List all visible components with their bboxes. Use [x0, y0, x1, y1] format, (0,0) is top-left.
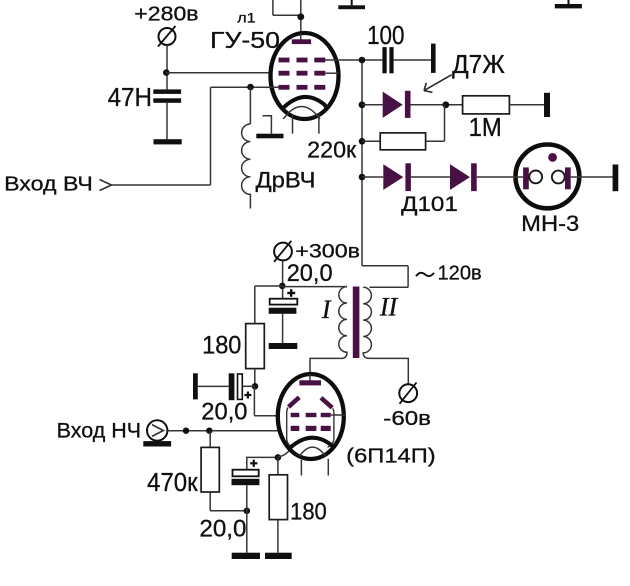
terminal +280в [158, 26, 176, 47]
node НЧ b [206, 428, 212, 434]
svg-text:Вход ВЧ: Вход ВЧ [4, 172, 93, 195]
terminal bar (after 100) [431, 44, 436, 73]
svg-text:(6П14П): (6П14П) [346, 446, 436, 468]
wire node to 470к [209, 431, 211, 448]
label I [321, 295, 332, 324]
label -60в [383, 408, 431, 430]
label 220к [307, 137, 357, 163]
ground (НЧ connector) [143, 441, 171, 446]
label Вход ВЧ [4, 172, 93, 195]
tube U1 ГУ-50 envelope [271, 33, 339, 119]
heater dome of U2 [299, 447, 325, 456]
label л1 [237, 11, 256, 26]
heater dome of U1 [283, 106, 320, 118]
diode Д7Ж [383, 91, 411, 118]
label 1М [469, 114, 502, 142]
label Д7Ж [452, 51, 505, 79]
beam plates of U2 [289, 397, 333, 407]
svg-text:II: II [379, 293, 399, 322]
svg-text:20,0: 20,0 [201, 398, 247, 425]
wire terminal to coupling cap [198, 385, 229, 387]
ground (cathode 180) [265, 553, 292, 559]
svg-text:л1: л1 [237, 11, 256, 26]
node +280в / screen-grid junction [163, 69, 170, 76]
wire cap to ground [166, 103, 168, 139]
terminal bar (after МН-3) [613, 165, 619, 192]
wire screen cap to node [242, 385, 255, 387]
cathode of U2 [291, 438, 333, 448]
grid row 2 of U1 [279, 71, 326, 76]
wire node to primary I [282, 286, 347, 288]
svg-text:470к: 470к [147, 469, 198, 497]
ground (under 47Н) [154, 139, 182, 144]
tube U2 6П14П envelope [278, 374, 344, 459]
svg-text:20,0: 20,0 [287, 260, 333, 287]
resistor 180 (cathode) [269, 475, 287, 520]
node bus/Д101 [359, 174, 366, 181]
svg-text:47Н: 47Н [108, 84, 152, 112]
plus sign (screen cap) [244, 392, 251, 399]
label +280в [134, 3, 198, 25]
wire cathode to ground [263, 116, 272, 134]
ground (filter cap) [269, 343, 298, 349]
wire 470к to cap line [210, 492, 247, 511]
svg-text:1М: 1М [469, 114, 502, 142]
heater pins of U1 [293, 115, 319, 134]
capacitor 20,0 electrolytic (cathode) [232, 470, 260, 485]
wire 220к up to node [426, 105, 445, 142]
ground (top middle) [338, 0, 365, 9]
wire bus to secondary top [362, 266, 408, 288]
resistor 180 (screen) [246, 324, 265, 369]
capacitor 20,0 electrolytic (screen) [229, 373, 243, 400]
wire screen node to tube [254, 386, 280, 415]
node Д7Ж/220к/1М [442, 101, 449, 108]
transformer primary I [310, 287, 347, 381]
lamp left electrode [523, 167, 542, 189]
wire bus to Д101 [362, 176, 383, 178]
grid row 1 of U1 [279, 58, 326, 63]
terminal bar (after 1М) [544, 93, 550, 117]
cathode of U1 [284, 97, 327, 109]
label 20,0 (cathode cap) [199, 516, 246, 543]
wire bus to Д7Ж [362, 104, 383, 106]
wire node to 180 resistor [255, 286, 282, 324]
node bus/grid1 [359, 57, 366, 64]
svg-text:ДрВЧ: ДрВЧ [256, 168, 316, 193]
transformer core [353, 287, 360, 359]
anode plate of U1 [292, 33, 311, 44]
capacitor 20,0 electrolytic (filter) [269, 299, 298, 314]
terminal bar (coupling cap) [193, 373, 198, 399]
wire bus to 220к [362, 140, 380, 142]
grid row 3 of U1 [279, 85, 326, 90]
svg-text:I: I [321, 295, 332, 324]
node 470к/20,0 [244, 508, 251, 515]
terminal -60в [399, 383, 417, 404]
grid row 2 of U2 [291, 426, 331, 431]
label 20,0 (anode filter cap) [287, 260, 333, 287]
label Вход НЧ [57, 419, 141, 442]
wire lamp to terminal [571, 176, 613, 178]
label 47Н [108, 84, 152, 112]
node НЧ a [183, 428, 189, 434]
diode Д101 b [450, 163, 477, 191]
grid row 1 of U2 [291, 413, 331, 417]
label ДрВЧ [256, 168, 316, 193]
heater pins of U2 [301, 459, 328, 476]
diode Д101 a [383, 163, 411, 191]
ground (cathode U1) [256, 134, 283, 139]
wire 180 to ground [277, 520, 279, 553]
svg-text:Д7Ж: Д7Ж [452, 51, 505, 79]
wire grid1 right stub of U2 [331, 414, 346, 416]
wire 180 to screen node [254, 369, 256, 387]
anode plate of U2 [299, 374, 321, 385]
label +300в [295, 242, 360, 263]
svg-text:100: 100 [367, 22, 404, 50]
label 20,0 (screen cap) [201, 398, 247, 425]
label (6П14П) [346, 446, 436, 468]
wire 1М to terminal [509, 104, 544, 106]
input chevron ВЧ [100, 180, 112, 191]
node +300в [279, 283, 286, 290]
transformer secondary II [363, 287, 408, 384]
node anode junction [297, 13, 304, 20]
ground (top right) [555, 0, 582, 8]
wire node to screen grid of U1 [166, 72, 281, 74]
svg-text:120в: 120в [438, 263, 482, 285]
svg-text:180: 180 [290, 499, 327, 526]
node grid/choke junction [247, 84, 254, 91]
svg-text:-60в: -60в [383, 408, 431, 430]
svg-text:Д101: Д101 [401, 191, 458, 216]
resistor 470к [201, 447, 219, 492]
wire +300в to node [282, 260, 284, 298]
svg-text:20,0: 20,0 [199, 516, 246, 543]
wire bus vertical [361, 60, 363, 266]
capacitor 100 [382, 47, 393, 73]
wire between diodes [411, 176, 450, 178]
wire cathode cap to ground [246, 485, 248, 553]
wire НЧ input to grid [167, 430, 291, 432]
wire Д7Ж to 1М [411, 104, 463, 106]
lamp top dot [548, 153, 557, 162]
label МН-3 [521, 211, 579, 236]
wire control grid to input [111, 87, 278, 185]
label Д101 [401, 191, 458, 216]
svg-text:Вход НЧ: Вход НЧ [57, 419, 141, 442]
terminal +300в [274, 241, 292, 262]
label 470к [147, 469, 198, 497]
wire grid1 right lead to bus [325, 59, 382, 61]
node cathode [275, 454, 282, 461]
svg-text:+280в: +280в [134, 3, 198, 25]
label ~120в [416, 263, 482, 285]
svg-text:220к: 220к [307, 137, 357, 163]
capacitor 47Н [153, 89, 181, 102]
svg-text:ГУ-50: ГУ-50 [210, 27, 280, 53]
node screen [252, 383, 259, 390]
svg-text:180: 180 [202, 332, 241, 360]
resistor 220к [380, 133, 425, 150]
wire +280в to node [166, 45, 168, 89]
node bus/220к [359, 138, 366, 145]
inductor ДрВЧ [242, 87, 251, 208]
wire grid2 right stub [325, 72, 338, 74]
label 100 [367, 22, 404, 50]
resistor 1М [463, 96, 510, 114]
wire filter cap to ground [282, 314, 284, 343]
label 180 (cathode) [290, 499, 327, 526]
label 180 (screen resistor) [202, 332, 241, 360]
wire cathode to 180 [277, 457, 279, 474]
beam plate outlines [287, 408, 334, 448]
input connector НЧ [147, 420, 167, 440]
plus sign (cathode cap) [250, 460, 257, 467]
wire anode supply L (top edge) [273, 0, 301, 41]
wire cap 100 to terminal [394, 59, 431, 61]
lamp МН-3 envelope [516, 145, 580, 209]
plus sign (filter cap) [287, 289, 295, 297]
wire cathode into tube [278, 448, 292, 457]
arrow to Д7Ж [424, 75, 452, 93]
ground (cathode cap) [232, 553, 260, 559]
wire cathode horizontal [246, 457, 278, 469]
lamp right electrode [552, 167, 571, 189]
svg-text:МН-3: МН-3 [521, 211, 579, 236]
wire Д101 to lamp [477, 176, 523, 178]
label ГУ-50 [210, 27, 280, 53]
label II [379, 293, 399, 322]
node bus/Д7Ж [359, 101, 366, 108]
